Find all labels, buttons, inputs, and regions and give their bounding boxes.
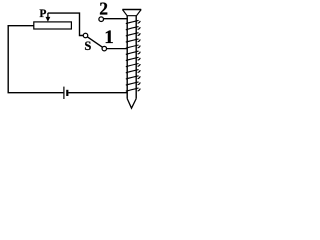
coil turn 8 — [126, 64, 140, 67]
battery cell: long positive plate — [63, 87, 65, 99]
coil turn 12 — [126, 88, 140, 91]
coil turn 1 — [126, 20, 140, 23]
rheostat slider arrow — [47, 13, 49, 18]
battery cell: short negative plate — [66, 90, 68, 96]
coil turn 2 — [126, 27, 140, 30]
switch S pivot terminal — [83, 33, 88, 38]
screw tip — [127, 99, 136, 109]
coil turn 6 — [126, 51, 140, 54]
wire: slider to switch pivot — [48, 13, 83, 35]
wire: contact 2 to coil top end — [104, 18, 128, 20]
resistor P (rheostat body) — [34, 22, 72, 29]
svg-text:P: P — [39, 8, 46, 20]
coil turn 9 — [126, 70, 140, 73]
svg-text:2: 2 — [99, 0, 108, 18]
svg-text:S: S — [84, 39, 91, 53]
coil turn 7 — [126, 57, 140, 60]
screw shaft — [127, 16, 136, 99]
coil turn 5 — [126, 45, 140, 48]
coil turn 10 — [126, 76, 140, 79]
svg-text:1: 1 — [104, 27, 114, 48]
contact terminal 2 — [99, 17, 104, 22]
coil turn 4 — [126, 39, 140, 42]
coil turn 11 — [126, 82, 140, 85]
screw head — [122, 9, 141, 11]
contact terminal 1 — [102, 46, 107, 51]
wire: left loop from rheostat left terminal down to battery — [8, 26, 63, 93]
coil turn 3 — [126, 33, 140, 36]
wire: battery to coil bottom end — [68, 92, 127, 94]
wire: contact 1 to coil mid tap — [107, 48, 128, 50]
switch S lever (thrown to contact 1) — [87, 37, 102, 48]
